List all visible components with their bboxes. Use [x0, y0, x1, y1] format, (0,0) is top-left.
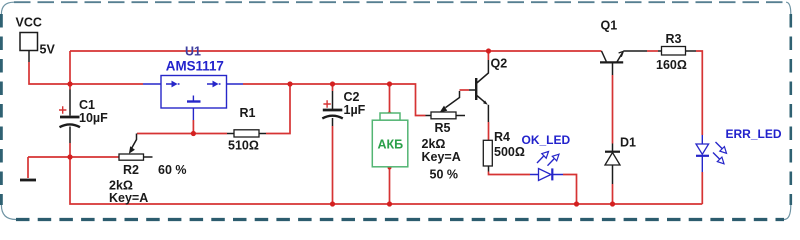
svg-text:1µF: 1µF — [344, 103, 366, 117]
svg-text:Q1: Q1 — [601, 18, 618, 32]
svg-text:R4: R4 — [494, 130, 510, 144]
svg-text:Key=A: Key=A — [109, 191, 148, 205]
svg-text:C1: C1 — [79, 98, 95, 112]
svg-text:R1: R1 — [240, 106, 256, 120]
svg-text:VCC: VCC — [16, 16, 42, 30]
svg-text:C2: C2 — [344, 90, 360, 104]
svg-text:Q2: Q2 — [491, 57, 508, 71]
svg-text:R3: R3 — [666, 32, 682, 46]
svg-text:60 %: 60 % — [158, 163, 187, 177]
svg-text:AMS1117: AMS1117 — [166, 58, 224, 73]
svg-text:R5: R5 — [435, 121, 451, 135]
svg-text:510Ω: 510Ω — [228, 139, 259, 153]
svg-text:160Ω: 160Ω — [656, 58, 687, 72]
svg-text:50 %: 50 % — [430, 168, 459, 182]
svg-text:D1: D1 — [620, 135, 636, 149]
svg-text:500Ω: 500Ω — [494, 145, 525, 159]
svg-text:5V: 5V — [40, 43, 56, 57]
svg-text:АКБ: АКБ — [378, 138, 404, 152]
svg-text:R2: R2 — [123, 163, 139, 177]
svg-text:OK_LED: OK_LED — [522, 133, 571, 147]
svg-text:Key=A: Key=A — [422, 150, 461, 164]
svg-text:U1: U1 — [185, 45, 201, 59]
svg-text:2kΩ: 2kΩ — [422, 137, 446, 151]
svg-text:ERR_LED: ERR_LED — [726, 127, 782, 141]
svg-text:10µF: 10µF — [79, 111, 108, 125]
